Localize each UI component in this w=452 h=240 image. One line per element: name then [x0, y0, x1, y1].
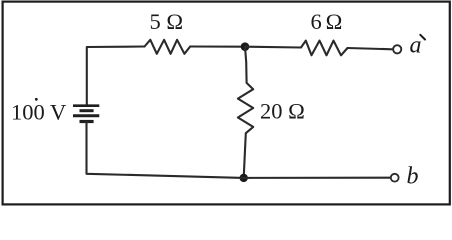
svg-text:a: a — [410, 33, 422, 59]
resistor R2 6 ohm — [301, 41, 348, 56]
terminal a circle — [393, 45, 401, 53]
wire top-left segment — [87, 47, 145, 107]
svg-text:100 V: 100 V — [11, 100, 66, 125]
svg-text:20 Ω: 20 Ω — [260, 99, 305, 124]
svg-text:5 Ω: 5 Ω — [150, 9, 184, 34]
wire battery bottom to bottom-left corner — [87, 122, 244, 178]
battery V1 plates — [73, 106, 99, 122]
resistor R3 20 ohm vertical — [238, 47, 253, 178]
svg-text:b: b — [407, 164, 419, 190]
wire bottom node to terminal b — [244, 177, 391, 179]
resistor R1 5 ohm — [145, 40, 191, 54]
terminal b circle — [391, 174, 399, 182]
wire between R1 and node — [190, 45, 245, 47]
node junction dot bottom — [240, 174, 248, 182]
stray dot above 100 — [35, 98, 38, 101]
svg-text:6 Ω: 6 Ω — [311, 9, 342, 34]
grave mark after a — [420, 35, 425, 40]
node junction dot top — [241, 42, 250, 51]
wire node to R2 — [245, 46, 301, 49]
wire R2 to terminal a — [348, 48, 393, 49]
